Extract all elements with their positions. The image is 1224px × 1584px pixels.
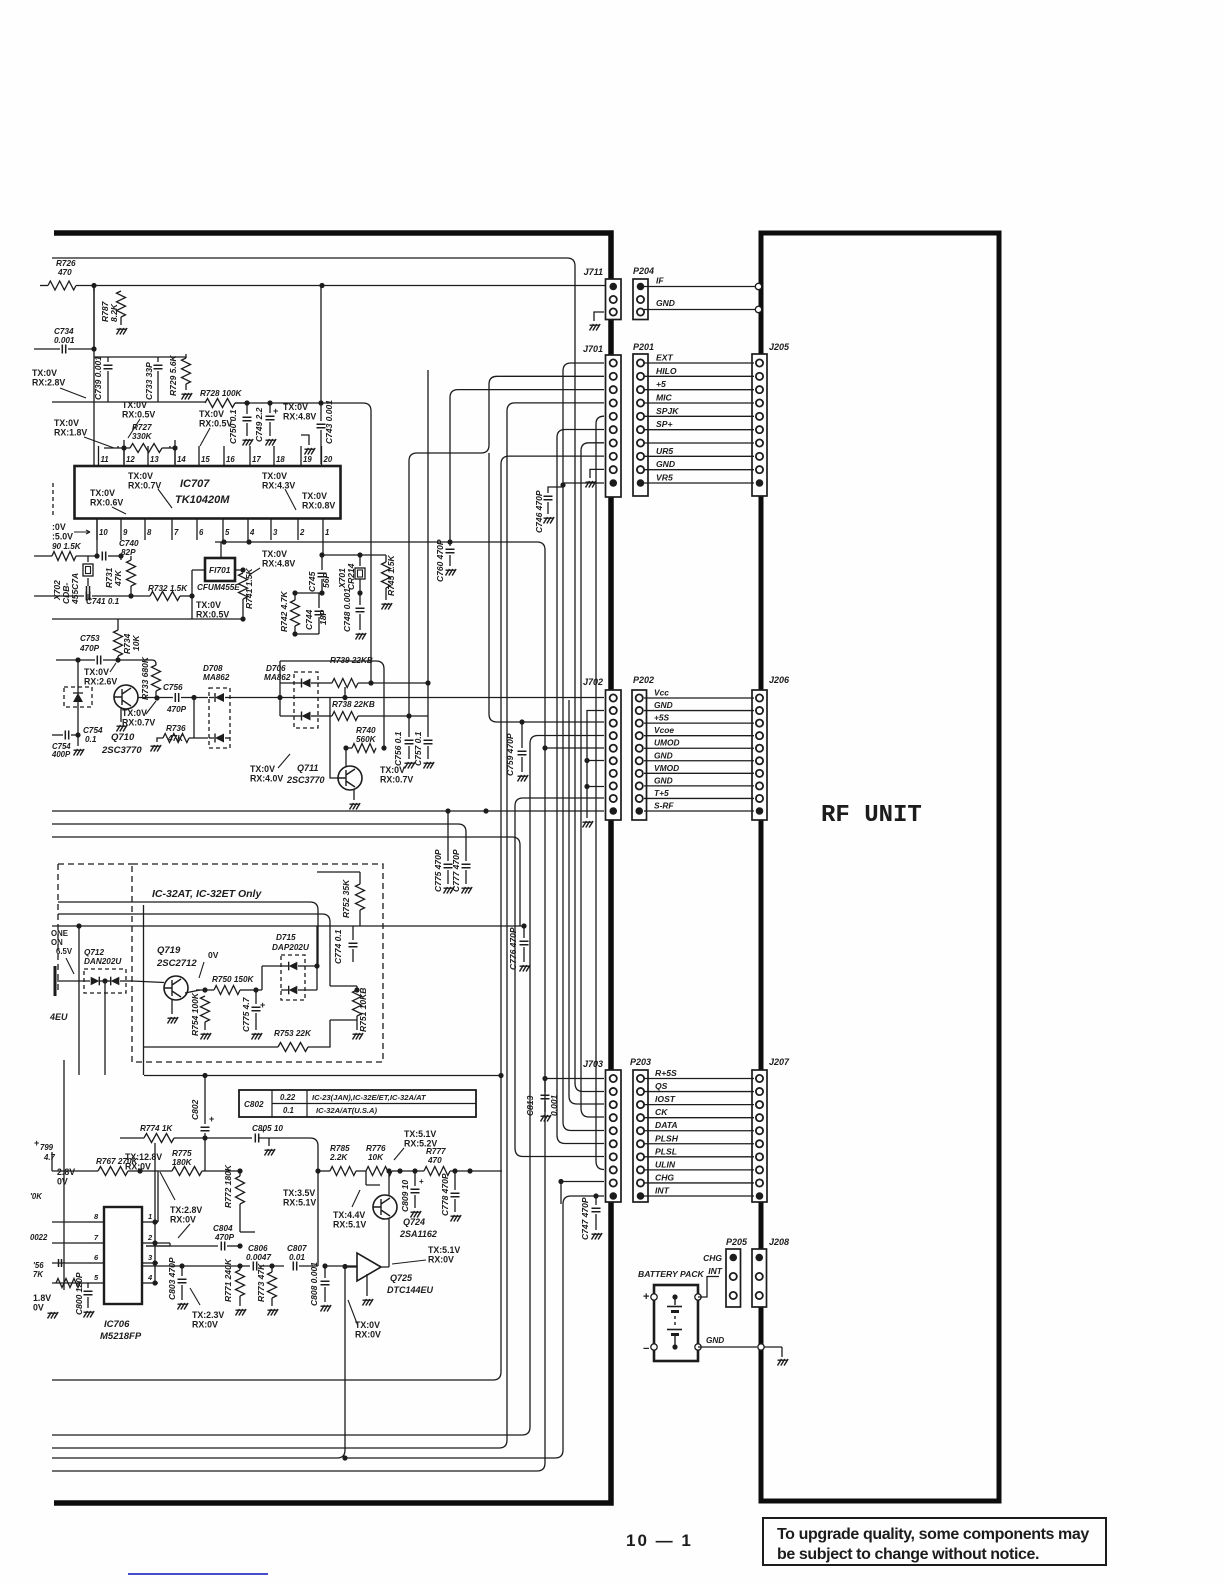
svg-text:M5218FP: M5218FP — [100, 1331, 142, 1342]
svg-text:2.2K: 2.2K — [329, 1153, 348, 1162]
svg-text:9: 9 — [123, 528, 128, 537]
svg-text:R732 1.5K: R732 1.5K — [148, 584, 188, 593]
svg-text:J711: J711 — [584, 267, 603, 277]
wire P203 pin6 to J207 — [644, 1143, 754, 1145]
capacitor C760 470P — [449, 542, 451, 546]
connector J208 — [752, 1249, 767, 1307]
svg-text:4: 4 — [249, 528, 255, 537]
RF unit border — [761, 233, 999, 1501]
svg-text:C753: C753 — [80, 634, 100, 643]
svg-text:DAP202U: DAP202U — [272, 943, 310, 952]
svg-text:3: 3 — [273, 528, 278, 537]
wire P202 pin5 to J206 — [644, 747, 754, 749]
svg-text:J703: J703 — [583, 1059, 603, 1069]
svg-text:R740: R740 — [356, 726, 376, 735]
wire battery to P205 INT — [698, 1277, 719, 1298]
capacitor C775 470P — [447, 811, 449, 861]
svg-text:0V: 0V — [208, 950, 219, 960]
svg-text:C750 0.1: C750 0.1 — [228, 409, 238, 444]
svg-text:455C7A: 455C7A — [70, 573, 80, 605]
svg-text::0V: :0V — [52, 522, 66, 532]
condenser mic electrode — [54, 966, 57, 996]
svg-text:RX:0V: RX:0V — [125, 1162, 151, 1172]
svg-text:DAN202U: DAN202U — [84, 957, 122, 966]
svg-text:TX:0V: TX:0V — [122, 708, 147, 718]
svg-text:10K: 10K — [131, 635, 141, 651]
svg-text:18: 18 — [276, 455, 285, 464]
wire rail 634 — [295, 633, 319, 635]
svg-text:QS: QS — [655, 1081, 668, 1091]
svg-text:ONE: ONE — [51, 929, 68, 938]
svg-text:'56: '56 — [33, 1261, 44, 1270]
IC706 pin 2 right — [142, 1242, 158, 1244]
svg-text:IC706: IC706 — [104, 1319, 130, 1330]
wire 661 corner — [280, 661, 384, 748]
IC707 pin 15 — [198, 446, 200, 466]
svg-text:MIC: MIC — [656, 393, 673, 403]
svg-text:be subject to change without n: be subject to change without notice. — [777, 1546, 1039, 1563]
wire bus 837 — [52, 837, 520, 926]
svg-text:470P: 470P — [166, 705, 187, 714]
svg-text:RX:2.6V: RX:2.6V — [84, 677, 117, 687]
wire P201 pin9 to J205 — [644, 469, 754, 471]
svg-text:Q711: Q711 — [297, 763, 318, 773]
svg-text:R+5S: R+5S — [655, 1068, 677, 1078]
svg-text:C747 470P: C747 470P — [580, 1197, 590, 1240]
svg-text:+: + — [273, 406, 278, 416]
svg-text:ULIN: ULIN — [655, 1159, 676, 1169]
wire 402 rail — [52, 401, 205, 403]
wire P203 pin9 to J207 — [644, 1182, 754, 1184]
svg-text:BATTERY PACK: BATTERY PACK — [638, 1269, 705, 1279]
svg-text:0.001: 0.001 — [549, 1094, 559, 1116]
svg-text:0V: 0V — [33, 1303, 44, 1313]
svg-text:TX:0V: TX:0V — [262, 549, 287, 559]
capacitor C747 470P — [593, 1193, 598, 1198]
svg-text:C806: C806 — [248, 1244, 268, 1253]
svg-text:FI701: FI701 — [209, 565, 231, 575]
wire P201 pin2 to J205 — [644, 375, 754, 377]
svg-text:INT: INT — [655, 1186, 670, 1196]
wire P201 pin1 to J205 — [644, 362, 754, 364]
svg-text:RX:4.8V: RX:4.8V — [262, 559, 295, 569]
svg-text:HILO: HILO — [656, 366, 677, 376]
IC707 pin 4 — [247, 519, 249, 541]
svg-text:C802: C802 — [190, 1099, 200, 1120]
svg-text:C745: C745 — [307, 571, 317, 592]
svg-text:4EU: 4EU — [49, 1012, 68, 1022]
svg-text:S-RF: S-RF — [654, 801, 674, 811]
IC707 pin 10 — [96, 519, 98, 541]
wire 402 upper rail — [235, 402, 363, 404]
svg-text:J701: J701 — [583, 344, 603, 354]
svg-text:13: 13 — [150, 455, 159, 464]
svg-text:RX:0V: RX:0V — [428, 1255, 454, 1265]
svg-text:R771 240K: R771 240K — [223, 1258, 233, 1302]
IC707 pin 17 — [249, 446, 251, 466]
svg-text:R753 22K: R753 22K — [274, 1029, 312, 1038]
svg-text:1: 1 — [148, 1212, 152, 1221]
svg-text:RF UNIT: RF UNIT — [821, 802, 922, 829]
svg-text:2SC3770: 2SC3770 — [101, 745, 142, 756]
wire D715 left links — [256, 966, 281, 990]
svg-text:RX:0.7V: RX:0.7V — [380, 775, 413, 785]
svg-text:GND: GND — [654, 750, 673, 760]
svg-text:P201: P201 — [633, 342, 654, 352]
svg-text:R727: R727 — [132, 423, 152, 432]
wire left stubs — [52, 1221, 88, 1223]
IC707 pin 14 — [174, 446, 176, 466]
svg-text:16: 16 — [226, 455, 235, 464]
svg-text:1: 1 — [325, 528, 329, 537]
svg-text:C803 470P: C803 470P — [167, 1257, 177, 1300]
svg-text:IC707: IC707 — [180, 478, 210, 490]
svg-text:RX:5.2V: RX:5.2V — [404, 1139, 437, 1149]
filter FI701 CFUM455E — [205, 558, 235, 581]
wire J701 pin2 Z-route — [409, 376, 604, 716]
svg-text:C813: C813 — [525, 1095, 535, 1116]
svg-text:R742 4.7K: R742 4.7K — [279, 591, 289, 632]
svg-text:Vcoe: Vcoe — [654, 725, 674, 735]
wire J701 pin6 to J703 pin6 — [557, 430, 604, 1144]
wire J703 pin10 stub — [345, 1196, 604, 1458]
svg-text:Q725: Q725 — [390, 1273, 413, 1283]
IC706 pin 3 right — [142, 1262, 158, 1264]
svg-text:C775 4.7: C775 4.7 — [241, 996, 251, 1032]
svg-text:C756: C756 — [163, 683, 183, 692]
wire P202 pin3 to J206 — [644, 722, 754, 724]
svg-text:RX:0.5V: RX:0.5V — [196, 610, 229, 620]
svg-text:R774 1K: R774 1K — [140, 1124, 173, 1133]
svg-text:Q719: Q719 — [157, 945, 181, 956]
svg-text:TX:5.1V: TX:5.1V — [428, 1245, 460, 1255]
svg-text:0.22: 0.22 — [280, 1093, 296, 1102]
svg-text:CK: CK — [655, 1107, 668, 1117]
connector J205 — [752, 354, 767, 496]
capacitor C813 0.001 — [544, 1079, 546, 1093]
wire J702 pin5 junction — [545, 747, 604, 749]
IC706 pin 4 right — [142, 1282, 158, 1284]
svg-text:TX:4.4V: TX:4.4V — [333, 1210, 365, 1220]
svg-text:TX:0V: TX:0V — [90, 488, 115, 498]
wire J702 pin4 to bottom bus 1435 — [52, 736, 604, 1436]
svg-text:2SA1162: 2SA1162 — [399, 1229, 437, 1239]
svg-text:P202: P202 — [633, 675, 654, 685]
svg-text:2.8V: 2.8V — [57, 1167, 75, 1177]
svg-text:560K: 560K — [356, 735, 377, 744]
svg-text:C774 0.1: C774 0.1 — [333, 929, 343, 964]
svg-text:0022: 0022 — [30, 1233, 48, 1242]
wire left verticals — [63, 1060, 65, 1290]
svg-text:C805 10: C805 10 — [252, 1124, 283, 1133]
svg-text:UMOD: UMOD — [654, 738, 680, 748]
IC707 pin 11 — [98, 446, 100, 466]
wire rail 811 left segment — [51, 789, 53, 791]
ground at J702 GND — [583, 821, 594, 828]
svg-text:TX:0V: TX:0V — [302, 491, 327, 501]
svg-text:470: 470 — [57, 268, 72, 277]
IC707 pin 2 — [297, 519, 299, 541]
wire P201 pin4 to J205 — [644, 402, 754, 404]
svg-text:6: 6 — [199, 528, 204, 537]
svg-text:C741 0.1: C741 0.1 — [86, 597, 120, 606]
svg-text:RX:4.8V: RX:4.8V — [283, 412, 316, 422]
capacitor C777 470P — [465, 832, 467, 861]
wire P203 pin8 to J207 — [644, 1169, 754, 1171]
svg-text:8: 8 — [147, 528, 152, 537]
svg-text:C808 0.001: C808 0.001 — [309, 1262, 319, 1306]
wire P204 IF to RF unit — [644, 286, 756, 288]
svg-text:2SC2712: 2SC2712 — [156, 958, 197, 969]
svg-text:RX:4.0V: RX:4.0V — [250, 774, 283, 784]
wire top bus to J703 pin2 — [52, 258, 604, 1092]
svg-text:C739 0.001: C739 0.001 — [93, 356, 103, 400]
connector P205 — [726, 1249, 741, 1307]
svg-text:799: 799 — [40, 1143, 54, 1152]
svg-text:GND: GND — [656, 459, 675, 469]
wire P202 pin6 to J206 — [644, 760, 754, 762]
capacitor C776 470P — [523, 926, 525, 938]
svg-text:Q724: Q724 — [403, 1217, 425, 1227]
svg-text:+5S: +5S — [654, 713, 670, 723]
svg-text:R751 10KB: R751 10KB — [358, 988, 368, 1032]
svg-text:90 1.5K: 90 1.5K — [52, 542, 82, 551]
wire R775 to R772 — [204, 1138, 206, 1171]
svg-text:1.8V: 1.8V — [33, 1293, 51, 1303]
svg-text:C777 470P: C777 470P — [451, 849, 461, 892]
wire J702 pin2 GND group — [587, 711, 604, 819]
table C802 options — [239, 1090, 476, 1117]
svg-text:TX:0V: TX:0V — [54, 418, 79, 428]
svg-text:2: 2 — [147, 1233, 153, 1242]
svg-text:+: + — [643, 1291, 649, 1303]
svg-text:Vcc: Vcc — [654, 688, 669, 698]
wire P203 pin4 to J207 — [644, 1117, 754, 1119]
wire J701 pin10 to C746 node — [563, 482, 604, 484]
wire FI701 left — [192, 570, 205, 596]
svg-text:TX:2.8V: TX:2.8V — [170, 1205, 202, 1215]
dashed box fragment left — [52, 483, 54, 516]
svg-text:PLSL: PLSL — [655, 1146, 677, 1156]
wire J701 pin7 to J703 pin4 — [581, 443, 604, 1117]
svg-text:TX:0V: TX:0V — [128, 471, 153, 481]
svg-text:Q712: Q712 — [84, 948, 104, 957]
wire IC706 pin2 — [146, 1243, 170, 1246]
wire bottom bus 1458 — [52, 1267, 345, 1458]
pin19 ground — [301, 435, 309, 445]
svg-text:R736: R736 — [166, 724, 186, 733]
svg-text:470P: 470P — [214, 1233, 235, 1242]
wire P202 pin10 to J206 — [644, 810, 754, 812]
svg-text:R733 680K: R733 680K — [140, 656, 150, 700]
svg-text:RX:1.8V: RX:1.8V — [54, 428, 87, 438]
wire pin10 down — [96, 519, 98, 557]
svg-text:C778 470P: C778 470P — [440, 1173, 450, 1216]
wire C808 to Q725 — [325, 1265, 357, 1267]
wire J702 pin9 to J703 pin7 — [515, 798, 604, 1157]
svg-text:J207: J207 — [769, 1057, 790, 1067]
wire P203 pin2 to J207 — [644, 1091, 754, 1093]
svg-text:IC-32A/AT(U.S.A): IC-32A/AT(U.S.A) — [316, 1106, 378, 1115]
svg-text:TX:0V: TX:0V — [355, 1320, 380, 1330]
svg-text:R776: R776 — [366, 1144, 386, 1153]
dashed diode box left — [64, 687, 92, 707]
wire S-RF bus — [52, 810, 604, 812]
wire P203 pin5 to J207 — [644, 1130, 754, 1132]
svg-text:TX:5.1V: TX:5.1V — [404, 1129, 436, 1139]
svg-text:TX:0V: TX:0V — [262, 471, 287, 481]
svg-text:400P: 400P — [51, 750, 71, 759]
svg-text:10: 10 — [99, 528, 108, 537]
svg-text:+: + — [209, 1114, 214, 1124]
svg-text:TX:0V: TX:0V — [84, 667, 109, 677]
svg-text:CFUM455E: CFUM455E — [197, 583, 240, 592]
svg-text:TX:3.5V: TX:3.5V — [283, 1188, 315, 1198]
IC707 pin 9 — [120, 519, 122, 541]
svg-text:C749 2.2: C749 2.2 — [254, 407, 264, 442]
svg-text:TX:0V: TX:0V — [250, 764, 275, 774]
wire P202 pin4 to J206 — [644, 735, 754, 737]
svg-text:TK10420M: TK10420M — [175, 494, 230, 506]
svg-text:C740: C740 — [119, 539, 139, 548]
IC707 pin 13 — [147, 446, 149, 466]
svg-text:DTC144EU: DTC144EU — [387, 1285, 434, 1295]
svg-text:RX:4.3V: RX:4.3V — [262, 481, 295, 491]
svg-text:0.0047: 0.0047 — [246, 1253, 271, 1262]
svg-text:TX:0V: TX:0V — [122, 400, 147, 410]
IC707 pin 12 — [123, 446, 125, 466]
capacitor C759 470P — [521, 722, 523, 748]
svg-text:470: 470 — [427, 1156, 442, 1165]
wire rail 555 — [322, 554, 386, 556]
svg-text:VR5: VR5 — [656, 473, 673, 483]
ground at J701 pin9 — [590, 469, 604, 478]
svg-text:'0K: '0K — [30, 1192, 43, 1201]
svg-text:C807: C807 — [287, 1244, 307, 1253]
svg-text:RX:0V: RX:0V — [170, 1215, 196, 1225]
IC706 pin 5 — [88, 1282, 104, 1284]
IC707 pin 3 — [270, 519, 272, 541]
svg-text:2SC3770: 2SC3770 — [286, 775, 325, 785]
svg-text:R729 5.6K: R729 5.6K — [168, 355, 178, 396]
connector J711 — [606, 279, 622, 320]
svg-text:To upgrade quality, some compo: To upgrade quality, some components may — [777, 1526, 1089, 1543]
svg-text:DATA: DATA — [655, 1120, 678, 1130]
wire P201 pin6 to J205 — [644, 429, 754, 431]
svg-text:T+5: T+5 — [654, 788, 669, 798]
svg-text:10 — 1: 10 — 1 — [626, 1531, 693, 1550]
wire battery GND to RF unit — [698, 1346, 757, 1348]
svg-text:D715: D715 — [276, 933, 296, 942]
svg-text:GND: GND — [654, 700, 673, 710]
svg-text:14: 14 — [177, 455, 186, 464]
svg-text:P203: P203 — [630, 1057, 651, 1067]
wire P201 pin3 to J205 — [644, 389, 754, 391]
IC706 pin 7 — [88, 1242, 104, 1244]
wire P204 GND to RF unit — [644, 309, 756, 311]
svg-text:UR5: UR5 — [656, 446, 673, 456]
wire P202 pin7 to J206 — [644, 772, 754, 774]
IC706 pin 6 — [88, 1262, 104, 1264]
svg-text:R775: R775 — [172, 1149, 192, 1158]
transistor Q710 2SC3770 — [114, 685, 138, 709]
IC707 pin 6 — [196, 519, 198, 541]
svg-text:C733 33P: C733 33P — [144, 362, 154, 400]
svg-text:R750 150K: R750 150K — [212, 975, 255, 984]
wire rail 619 — [52, 618, 243, 620]
svg-text:7K: 7K — [33, 1270, 44, 1279]
svg-text:RX:0.6V: RX:0.6V — [90, 498, 123, 508]
dashed option box IC-32AT — [132, 864, 383, 1062]
svg-text:CHG: CHG — [655, 1172, 674, 1182]
wire P202 pin2 to J206 — [644, 710, 754, 712]
connector P203 — [633, 1070, 648, 1202]
svg-text:C754: C754 — [83, 726, 103, 735]
buffer Q725 DTC144EU — [357, 1253, 381, 1281]
svg-text:R754 100K: R754 100K — [190, 992, 200, 1036]
svg-text:0V: 0V — [57, 1177, 68, 1187]
wire P202 pin9 to J206 — [644, 797, 754, 799]
svg-text:C776 470P: C776 470P — [508, 927, 518, 970]
svg-text:GND: GND — [654, 775, 673, 785]
wire tone bus — [52, 925, 524, 927]
wire DTMF — [58, 914, 330, 986]
IC706 pin 8 — [88, 1221, 104, 1223]
svg-text:C746 470P: C746 470P — [534, 490, 544, 533]
svg-text:R773 47K: R773 47K — [256, 1263, 266, 1302]
svg-text:+: + — [419, 1177, 424, 1186]
svg-text:470P: 470P — [79, 644, 100, 653]
wire FI701 top — [220, 542, 222, 558]
svg-text:C804: C804 — [213, 1224, 233, 1233]
svg-text:TX:12.8V: TX:12.8V — [125, 1152, 162, 1162]
wire D715 right vertical — [305, 926, 317, 966]
svg-text:12: 12 — [126, 455, 135, 464]
wire J702 pin3 riser — [489, 453, 604, 722]
wire Q719 collector — [185, 990, 200, 993]
svg-text:5: 5 — [225, 528, 230, 537]
svg-text:R738 22KB: R738 22KB — [332, 700, 375, 709]
connector J206 — [752, 690, 767, 820]
svg-text:VMOD: VMOD — [654, 763, 679, 773]
notice box — [763, 1518, 1106, 1565]
capacitor C746 470P — [548, 487, 563, 493]
svg-text:0.01: 0.01 — [289, 1253, 305, 1262]
IC706 pin 1 right — [142, 1221, 158, 1223]
wire bottom option rail — [144, 1046, 258, 1048]
svg-text:TX:0V: TX:0V — [32, 368, 57, 378]
svg-text:2: 2 — [299, 528, 305, 537]
svg-text:4.7: 4.7 — [43, 1153, 56, 1162]
wire D706 rails — [230, 697, 280, 699]
svg-text:Q710: Q710 — [111, 732, 135, 743]
svg-text:SPJK: SPJK — [656, 406, 679, 416]
svg-text:−: − — [643, 1343, 649, 1355]
wire P203 pin10 to J207 — [644, 1195, 754, 1197]
svg-text:ON: ON — [51, 938, 63, 947]
svg-text:P205: P205 — [726, 1237, 748, 1247]
connector P202 — [632, 690, 647, 820]
svg-text:8.2K: 8.2K — [109, 303, 119, 322]
wire J703 pin9 CHG — [561, 1181, 604, 1183]
op-amp IC706 M5218FP — [104, 1207, 142, 1304]
wire C760 branch — [52, 542, 545, 1471]
svg-text:TX:0V: TX:0V — [196, 600, 221, 610]
wire 543 rail stubs — [224, 540, 249, 542]
IC707 pin 18 — [273, 446, 275, 466]
svg-text:IOST: IOST — [655, 1094, 676, 1104]
svg-text:J702: J702 — [583, 677, 603, 687]
